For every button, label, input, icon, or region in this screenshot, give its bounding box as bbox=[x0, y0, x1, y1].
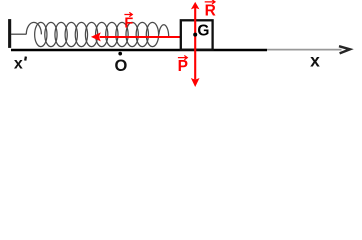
vector bar over P bbox=[178, 56, 187, 60]
svg-text:O: O bbox=[115, 57, 128, 75]
wire connector wall to spring bbox=[11, 33, 26, 35]
x axis thin line bbox=[267, 49, 342, 51]
force F arrowhead bbox=[91, 32, 101, 41]
block G bbox=[181, 20, 213, 49]
block center dot bbox=[193, 33, 197, 37]
wall bbox=[8, 19, 11, 48]
origin dot O bbox=[118, 52, 122, 56]
vertical force line R/P bbox=[194, 6, 196, 80]
spring entry arc bbox=[26, 22, 41, 34]
vector bar over F bbox=[124, 12, 132, 16]
force F arrow shaft bbox=[100, 36, 181, 38]
vector bar over R bbox=[205, 0, 215, 4]
spring coil loops bbox=[35, 22, 159, 46]
svg-text:F: F bbox=[124, 15, 133, 31]
prime mark of x' bbox=[24, 57, 27, 61]
force P arrowhead bbox=[191, 78, 200, 87]
svg-text:P: P bbox=[178, 58, 188, 75]
spring exit arc bbox=[159, 25, 169, 37]
ground line bbox=[11, 49, 267, 51]
svg-text:x: x bbox=[14, 55, 23, 72]
x axis arrowhead bbox=[339, 46, 350, 53]
force R arrowhead bbox=[191, 2, 200, 9]
svg-text:R: R bbox=[205, 3, 216, 20]
svg-text:x: x bbox=[310, 50, 320, 70]
svg-text:G: G bbox=[197, 23, 209, 40]
